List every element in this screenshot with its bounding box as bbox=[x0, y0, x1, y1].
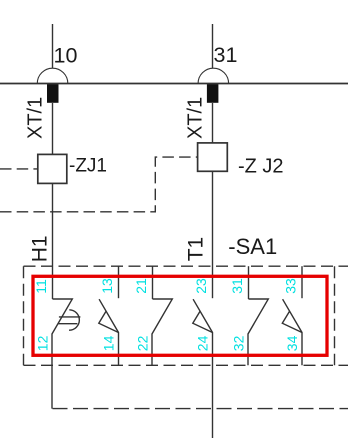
svg-text:XT/1: XT/1 bbox=[184, 97, 206, 139]
svg-text:32: 32 bbox=[231, 335, 247, 351]
svg-text:XT/1: XT/1 bbox=[24, 97, 46, 139]
svg-text:14: 14 bbox=[101, 335, 117, 351]
svg-text:31: 31 bbox=[214, 43, 238, 67]
svg-text:34: 34 bbox=[284, 335, 300, 351]
svg-text:10: 10 bbox=[54, 43, 78, 67]
svg-text:33: 33 bbox=[283, 278, 299, 294]
svg-text:-ZJ1: -ZJ1 bbox=[69, 156, 107, 177]
svg-text:-SA1: -SA1 bbox=[228, 234, 277, 259]
svg-text:11: 11 bbox=[33, 279, 49, 294]
svg-text:13: 13 bbox=[99, 278, 115, 294]
svg-text:24: 24 bbox=[195, 335, 211, 351]
svg-text:12: 12 bbox=[35, 335, 51, 351]
svg-text:23: 23 bbox=[193, 278, 209, 294]
svg-text:31: 31 bbox=[229, 278, 245, 294]
svg-text:T1: T1 bbox=[184, 237, 207, 262]
svg-text:-Z J2: -Z J2 bbox=[238, 155, 284, 177]
svg-text:21: 21 bbox=[133, 278, 149, 294]
svg-text:22: 22 bbox=[135, 335, 151, 351]
svg-text:H1: H1 bbox=[29, 235, 52, 262]
